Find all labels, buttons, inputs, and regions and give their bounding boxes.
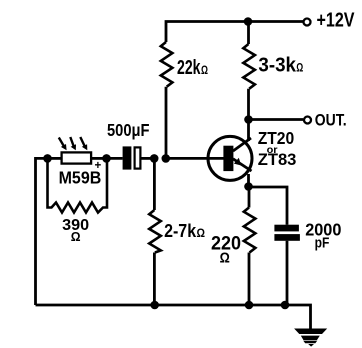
wire top +12V rail: [166, 22, 303, 43]
wire 2000pF bottom lead: [286, 241, 289, 305]
wire 22k bottom lead: [165, 87, 168, 159]
label 500uF: [107, 120, 150, 140]
wire 3.3k top lead: [247, 22, 250, 45]
label +12V: [317, 10, 356, 32]
node base right: [162, 154, 171, 163]
node OUT junction: [244, 115, 253, 124]
svg-text:pF: pF: [315, 235, 330, 252]
node emitter junction: [244, 182, 253, 191]
svg-text:ZT83: ZT83: [258, 150, 297, 169]
wire 2.7k bottom lead: [153, 253, 156, 306]
wire 3.3k bottom lead: [247, 89, 250, 120]
svg-text:+: +: [95, 159, 102, 172]
label 22k: [177, 57, 208, 79]
node rail 2.7k: [150, 301, 159, 310]
wire to 2000pF cap: [249, 187, 288, 225]
wire cell left lead: [48, 157, 62, 160]
wire cap 500 left lead: [107, 157, 123, 160]
wire left column: [36, 158, 48, 305]
wire emitter: [247, 174, 250, 187]
wire cap 500 right lead: [141, 157, 154, 160]
svg-text:Ω: Ω: [201, 63, 208, 77]
resistor 390 loop: [48, 158, 108, 212]
label ZT20: [258, 128, 297, 169]
svg-text:500μF: 500μF: [107, 120, 150, 140]
svg-text:+12V: +12V: [317, 10, 356, 32]
wire cell right lead: [91, 157, 107, 160]
wire collector: [247, 120, 250, 142]
terminal +12V: [304, 19, 311, 26]
node rail 220: [245, 301, 254, 310]
capacitor 2000pF: [274, 225, 300, 241]
wire 220 bottom lead: [248, 253, 251, 306]
wire OUT: [249, 118, 304, 121]
svg-text:Ω: Ω: [197, 226, 206, 240]
terminal OUT: [304, 117, 311, 124]
capacitor 500uF: [123, 146, 141, 169]
resistor 22k: [161, 42, 173, 87]
light arrow 1: [59, 138, 67, 151]
ground: [294, 329, 327, 347]
svg-text:Ω: Ω: [71, 230, 81, 244]
node cell right: [102, 154, 111, 163]
light arrow 2: [70, 137, 76, 150]
wire 2.7k top lead: [153, 158, 156, 210]
node cell left: [43, 154, 52, 163]
label OUT.: [315, 110, 347, 129]
svg-text:Ω: Ω: [296, 62, 303, 75]
svg-text:22k: 22k: [177, 57, 201, 79]
label 390: [62, 217, 89, 244]
wire base: [166, 157, 224, 160]
wire bottom rail: [36, 305, 311, 329]
label 2000pF: [305, 220, 341, 252]
node rail cap: [281, 301, 290, 310]
node base left: [150, 154, 159, 163]
transistor Q1 ZT20/ZT83: [208, 136, 252, 180]
label 2.7k: [164, 221, 205, 242]
svg-text:OUT.: OUT.: [315, 110, 347, 129]
resistor 3.3k: [243, 44, 255, 89]
label + polarity: [95, 159, 102, 172]
svg-text:2-7k: 2-7k: [164, 221, 196, 242]
label M59B: [59, 167, 102, 187]
resistor 2.7k: [149, 210, 161, 253]
wire emitter to 220: [248, 187, 251, 208]
svg-text:3-3k: 3-3k: [258, 55, 296, 77]
node top rail junction: [244, 17, 253, 26]
light arrow 3: [80, 137, 87, 150]
photocell M59B: [62, 152, 92, 163]
svg-text:Ω: Ω: [220, 251, 231, 267]
label 220: [211, 234, 241, 267]
resistor 220: [244, 208, 256, 253]
label 3.3k: [258, 55, 303, 77]
